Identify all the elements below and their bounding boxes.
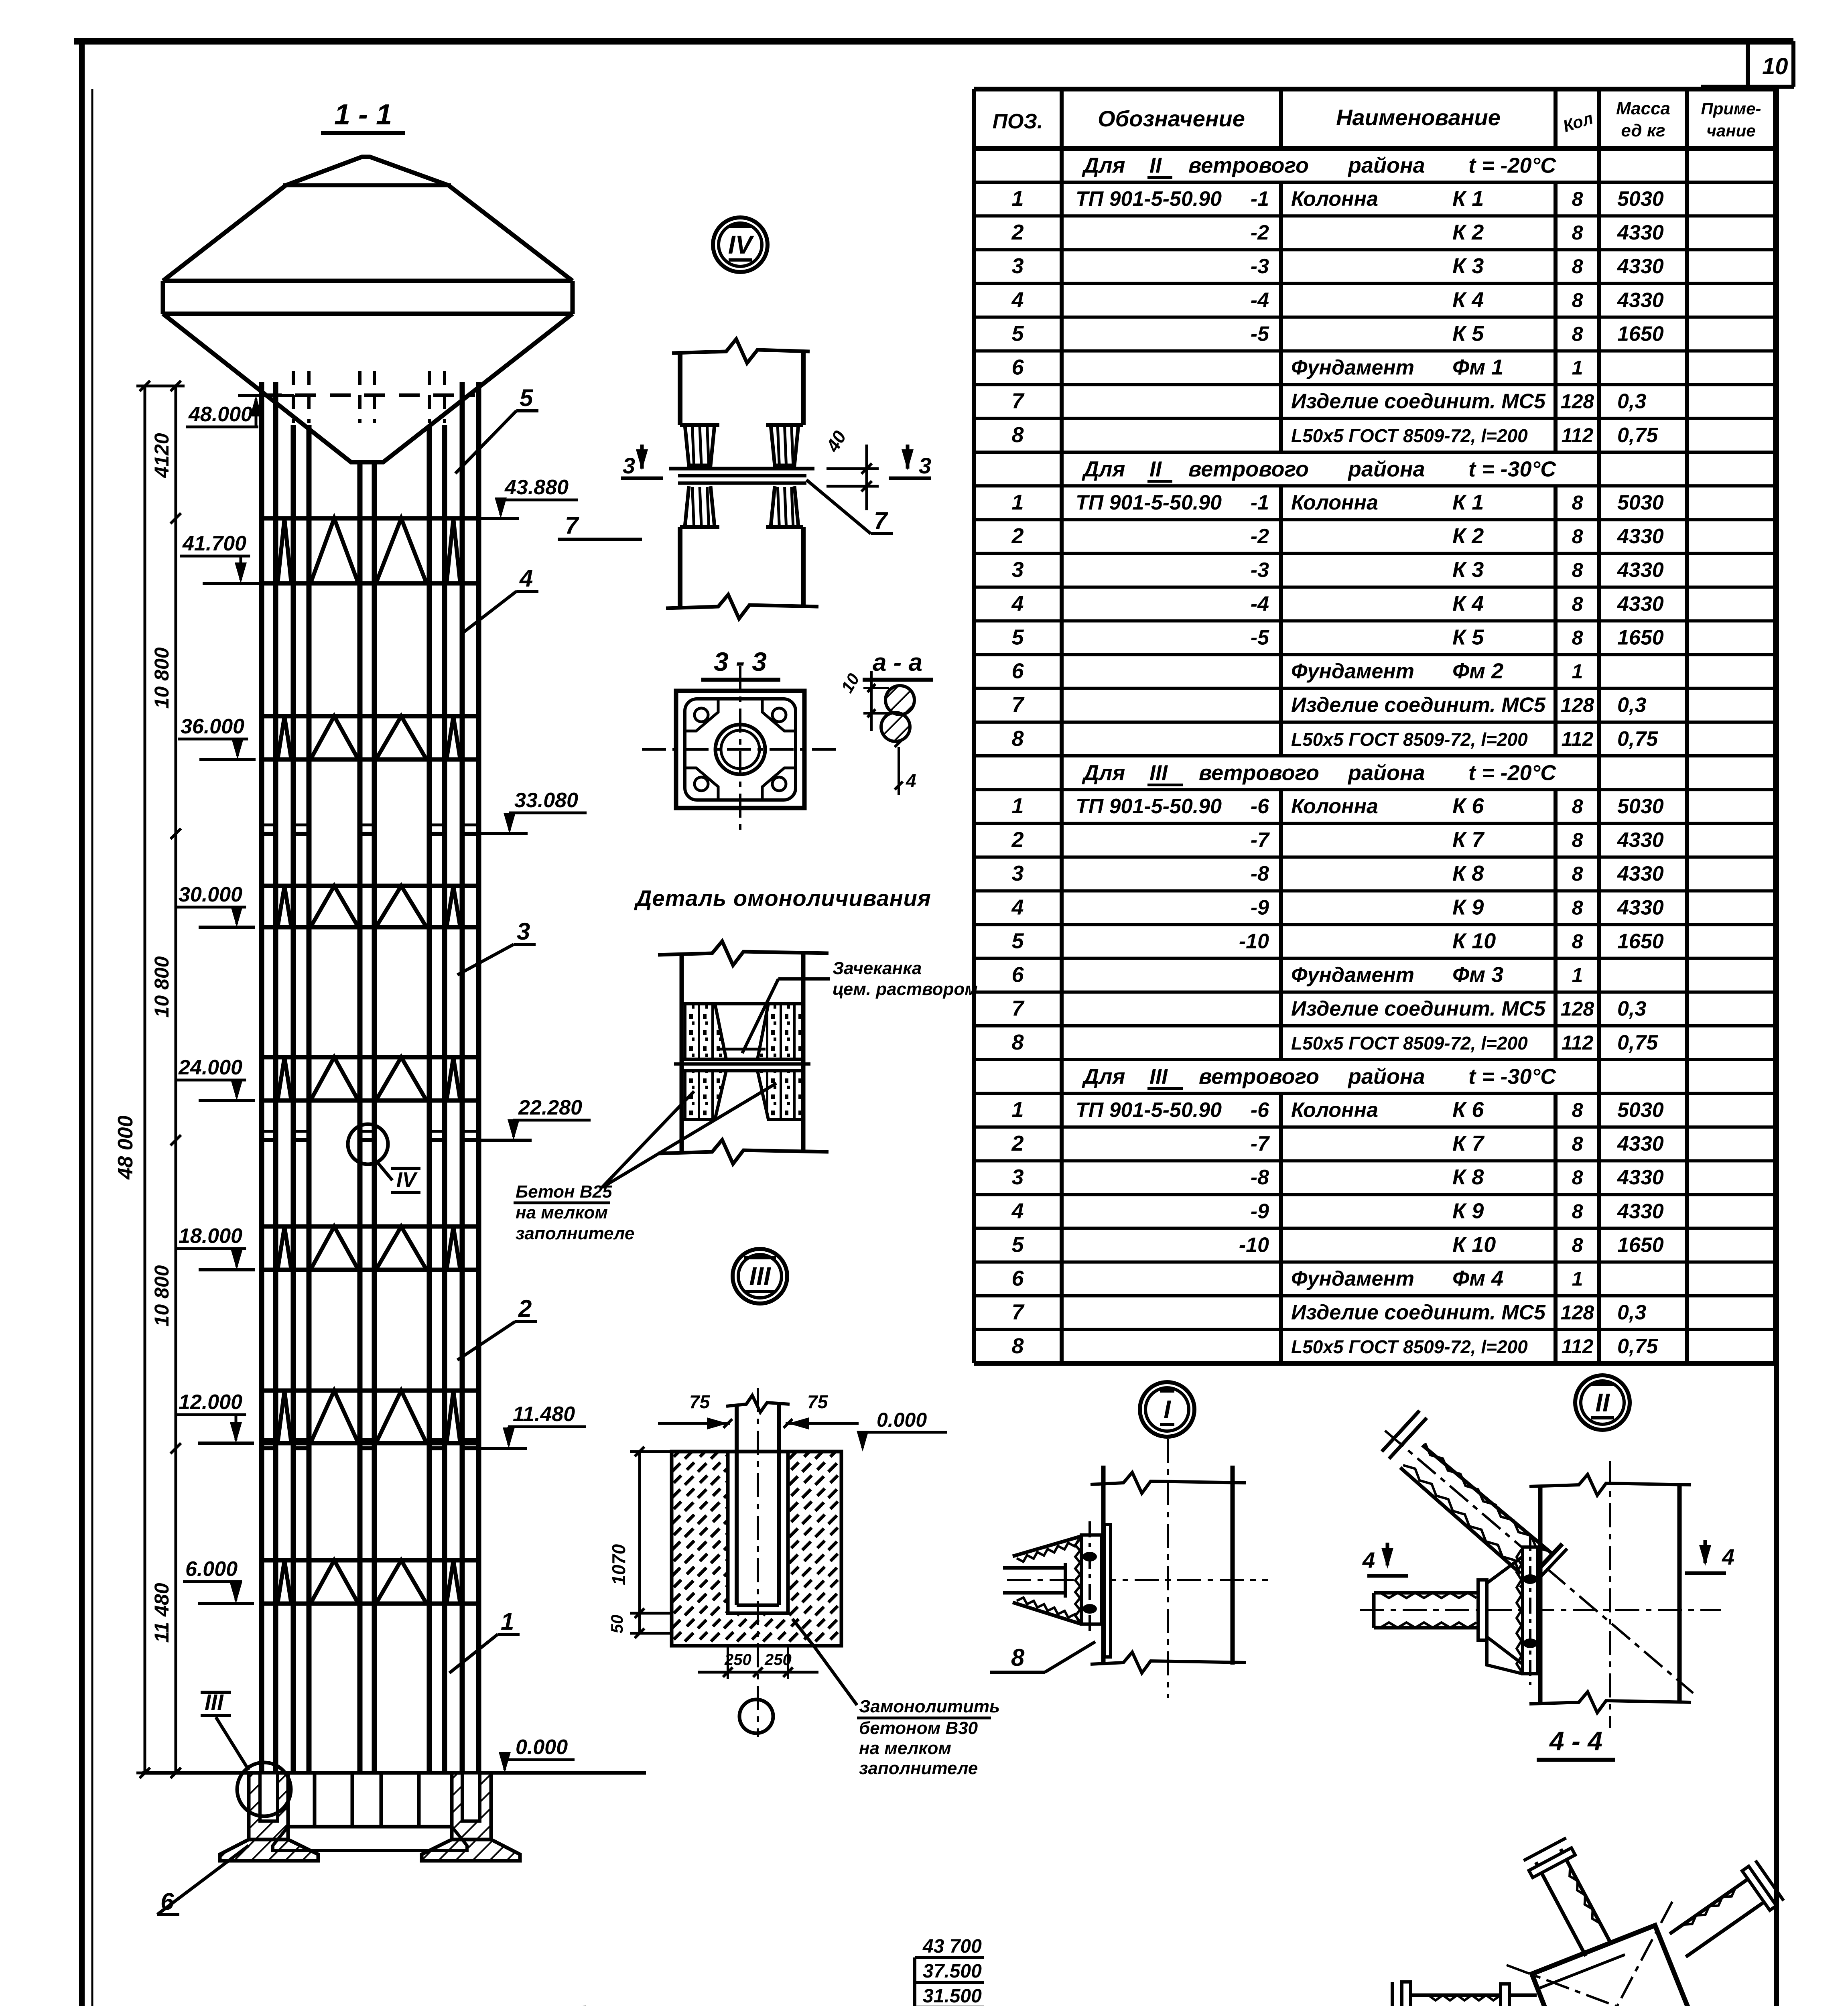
svg-text:11.480: 11.480 (513, 1403, 575, 1426)
svg-text:ветрового: ветрового (1188, 457, 1309, 481)
svg-text:К 5: К 5 (1452, 625, 1484, 649)
table section header III -20 (1082, 761, 1556, 785)
table row 7 Изделие соединит. МС5 (1011, 997, 1646, 1021)
svg-text:112: 112 (1562, 1335, 1594, 1358)
table row 4 К 4 (1011, 591, 1663, 615)
svg-text:8: 8 (1011, 1644, 1025, 1671)
svg-text:8: 8 (1011, 727, 1024, 751)
svg-text:1650: 1650 (1617, 930, 1664, 953)
svg-text:-8: -8 (1251, 1166, 1269, 1189)
svg-text:8: 8 (1572, 1166, 1583, 1189)
table row 3 К 8 (1011, 1165, 1663, 1189)
svg-text:ветрового: ветрового (1199, 1065, 1319, 1089)
table row 3 К 3 (1011, 558, 1663, 582)
foundation pit / slab (273, 1773, 467, 1850)
svg-text:7: 7 (874, 507, 888, 534)
detail IV column splice drawing (621, 339, 931, 619)
elevation mark 33.080 (471, 789, 587, 834)
svg-text:6: 6 (1011, 1267, 1024, 1291)
svg-text:-9: -9 (1251, 896, 1269, 919)
svg-text:-6: -6 (1251, 795, 1269, 818)
svg-text:К 9: К 9 (1452, 895, 1484, 919)
svg-text:0.000: 0.000 (516, 1736, 568, 1759)
table section header II -30 (1082, 457, 1556, 481)
svg-text:5030: 5030 (1617, 1098, 1664, 1122)
svg-text:К 6: К 6 (1452, 794, 1484, 818)
parts table grid (974, 89, 1775, 1363)
table row 1 К 1 (1011, 490, 1663, 514)
svg-text:района: района (1347, 1065, 1425, 1089)
svg-text:4330: 4330 (1617, 288, 1664, 312)
section 4-4 drawing (column with three beams, rotated view) (1392, 1838, 1783, 2006)
table row 5 К 5 (1011, 625, 1663, 649)
svg-text:8: 8 (1572, 1099, 1583, 1121)
elevation mark 0.000 (467, 1736, 575, 1773)
svg-text:К 4: К 4 (1452, 288, 1484, 312)
svg-text:1: 1 (1011, 794, 1024, 818)
svg-text:Для: Для (1082, 1065, 1125, 1089)
svg-text:8: 8 (1572, 863, 1583, 885)
svg-text:-8: -8 (1251, 862, 1269, 885)
svg-text:7: 7 (1011, 1300, 1025, 1324)
svg-text:1070: 1070 (608, 1544, 629, 1585)
svg-text:-2: -2 (1251, 221, 1269, 244)
table row 5 К 10 (1011, 929, 1663, 953)
svg-text:Колонна: Колонна (1291, 187, 1378, 211)
section label 3-3 (701, 647, 780, 680)
svg-text:К 3: К 3 (1452, 558, 1484, 582)
svg-text:t = -30°C: t = -30°C (1468, 457, 1556, 481)
svg-text:3: 3 (623, 453, 635, 478)
svg-text:-1: -1 (1251, 187, 1269, 211)
svg-text:0,75: 0,75 (1617, 1031, 1658, 1054)
detail II drawing (beam+brace to column joint) (1360, 1411, 1734, 1728)
svg-text:-4: -4 (1251, 592, 1269, 615)
svg-text:6: 6 (1011, 963, 1024, 987)
svg-text:4: 4 (1722, 1544, 1734, 1569)
svg-text:8: 8 (1011, 423, 1024, 447)
svg-text:IV: IV (396, 1168, 418, 1192)
svg-text:района: района (1347, 154, 1425, 178)
tower columns (shaft) (262, 382, 479, 1773)
svg-text:1650: 1650 (1617, 322, 1664, 345)
svg-text:на мелком: на мелком (859, 1738, 951, 1758)
svg-text:-7: -7 (1251, 828, 1270, 852)
svg-text:ПОЗ.: ПОЗ. (993, 110, 1043, 133)
table row 8 L50х5 ГОСТ 8509-72, l=200 (1011, 423, 1658, 447)
detail I circle label (1140, 1382, 1194, 1437)
svg-text:4330: 4330 (1617, 525, 1664, 548)
svg-text:4330: 4330 (1617, 558, 1664, 582)
section label 1-1 (321, 99, 405, 133)
svg-text:III: III (1149, 761, 1168, 785)
svg-text:К 3: К 3 (1452, 254, 1484, 278)
svg-text:8: 8 (1011, 1030, 1024, 1054)
svg-text:10 800: 10 800 (150, 956, 173, 1017)
svg-text:1650: 1650 (1617, 1233, 1664, 1257)
svg-text:8: 8 (1011, 1334, 1024, 1358)
callout 6 (foundation) (157, 1846, 249, 1915)
svg-text:43 700: 43 700 (922, 1936, 982, 1957)
svg-text:а - а: а - а (873, 649, 922, 676)
elevation mark 18.000 (176, 1224, 255, 1270)
svg-text:1: 1 (1572, 357, 1583, 379)
svg-text:8: 8 (1572, 559, 1583, 581)
svg-text:250: 250 (764, 1651, 792, 1669)
svg-text:ветрового: ветрового (1199, 761, 1319, 785)
column splice joints (260, 825, 480, 1448)
svg-text:0,75: 0,75 (1617, 727, 1658, 751)
svg-text:-5: -5 (1251, 322, 1269, 345)
svg-text:1: 1 (1572, 964, 1583, 987)
table header (993, 99, 1761, 140)
svg-text:4330: 4330 (1617, 1132, 1664, 1155)
svg-text:Масса: Масса (1616, 99, 1670, 118)
svg-text:0,3: 0,3 (1617, 390, 1646, 413)
svg-text:43.880: 43.880 (504, 476, 569, 499)
svg-text:на мелком: на мелком (516, 1203, 608, 1222)
svg-text:К 7: К 7 (1452, 1131, 1485, 1155)
svg-text:8: 8 (1572, 626, 1583, 649)
svg-text:7: 7 (1011, 389, 1025, 413)
section label a-a (863, 649, 933, 680)
svg-text:8: 8 (1572, 795, 1583, 818)
svg-text:7: 7 (1011, 997, 1025, 1021)
svg-text:112: 112 (1562, 728, 1594, 750)
table row 1 К 6 (1011, 794, 1663, 818)
table section header II -20 (1082, 154, 1556, 178)
svg-text:8: 8 (1572, 525, 1583, 548)
node IV mark on tower column (348, 1124, 420, 1192)
svg-text:3: 3 (1011, 558, 1024, 582)
callout 4 (461, 565, 538, 634)
svg-text:цем. раствором: цем. раствором (833, 979, 978, 999)
svg-text:2: 2 (1011, 524, 1024, 548)
svg-text:Для: Для (1082, 154, 1125, 178)
svg-text:4330: 4330 (1617, 1166, 1664, 1189)
svg-text:К 10: К 10 (1452, 929, 1496, 953)
svg-text:Колонна: Колонна (1291, 1098, 1378, 1122)
table row 4 К 9 (1011, 895, 1663, 919)
svg-text:ТП 901-5-50.90: ТП 901-5-50.90 (1076, 795, 1222, 818)
svg-text:4330: 4330 (1617, 1200, 1664, 1223)
svg-text:II: II (1149, 154, 1162, 178)
svg-text:заполнителе: заполнителе (516, 1224, 634, 1243)
svg-text:L50х5 ГОСТ 8509-72, l=200: L50х5 ГОСТ 8509-72, l=200 (1291, 1336, 1528, 1357)
svg-text:4120: 4120 (150, 433, 173, 478)
svg-text:К 6: К 6 (1452, 1098, 1484, 1122)
svg-text:Колонна: Колонна (1291, 795, 1378, 818)
table row 7 Изделие соединит. МС5 (1011, 389, 1646, 413)
svg-text:3: 3 (919, 453, 931, 478)
svg-text:Схема расположения элементов: Схема расположения элементов башни (154, 2002, 651, 2006)
svg-text:8: 8 (1572, 188, 1583, 210)
elevation mark 41.700 (180, 532, 259, 583)
table row 2 К 7 (1011, 828, 1663, 852)
table row 6 Фм 1 (1011, 355, 1583, 380)
label beton B25 (514, 1083, 776, 1243)
svg-text:8: 8 (1572, 593, 1583, 615)
bracing panels (262, 518, 479, 583)
sheet top border (74, 38, 1793, 45)
svg-text:К 1: К 1 (1452, 490, 1484, 514)
svg-text:L50х5 ГОСТ 8509-72, l=200: L50х5 ГОСТ 8509-72, l=200 (1291, 1033, 1528, 1054)
svg-text:10 800: 10 800 (150, 647, 173, 709)
svg-text:11 480: 11 480 (150, 1583, 173, 1643)
table row 7 Изделие соединит. МС5 (1011, 693, 1646, 717)
dim 1500 and elevation list 2-2 (822, 1936, 984, 2006)
svg-text:Фундамент: Фундамент (1291, 1267, 1414, 1291)
svg-text:ТП 901-5-50.90: ТП 901-5-50.90 (1076, 187, 1222, 211)
svg-text:4: 4 (1011, 895, 1024, 919)
water tank (163, 157, 573, 462)
svg-text:4330: 4330 (1617, 828, 1664, 852)
svg-text:Фм 2: Фм 2 (1452, 659, 1503, 683)
svg-text:8: 8 (1572, 323, 1583, 345)
callout 7 right (806, 480, 893, 534)
svg-text:128: 128 (1561, 390, 1594, 413)
callout 5 (column element) (455, 384, 538, 473)
svg-text:4: 4 (1011, 1199, 1024, 1223)
svg-text:250: 250 (724, 1651, 751, 1669)
svg-text:5: 5 (520, 384, 534, 411)
svg-text:48.000: 48.000 (188, 403, 252, 426)
table row 2 К 2 (1011, 524, 1663, 548)
svg-text:8: 8 (1572, 829, 1583, 851)
svg-text:чание: чание (1706, 121, 1755, 140)
elevation mark 22.280 (475, 1096, 591, 1140)
elevation mark 6.000 (183, 1557, 254, 1604)
svg-text:4330: 4330 (1617, 221, 1664, 244)
callout 1 (449, 1608, 520, 1673)
svg-text:4330: 4330 (1617, 255, 1664, 278)
svg-text:33.080: 33.080 (514, 789, 578, 812)
svg-text:41.700: 41.700 (182, 532, 246, 555)
svg-text:1: 1 (1011, 1098, 1024, 1122)
detail I drawing (beam to column joint) (1003, 1439, 1268, 1698)
svg-text:К 8: К 8 (1452, 861, 1484, 885)
svg-text:8: 8 (1572, 1133, 1583, 1155)
svg-text:2: 2 (1011, 828, 1024, 852)
detail IV circle label (713, 217, 768, 272)
svg-text:района: района (1347, 761, 1425, 785)
table row 1 К 6 (1011, 1098, 1663, 1122)
svg-text:L50х5 ГОСТ 8509-72, l=200: L50х5 ГОСТ 8509-72, l=200 (1291, 425, 1528, 446)
svg-text:Бетон В25: Бетон В25 (516, 1182, 612, 1202)
svg-text:района: района (1347, 457, 1425, 481)
svg-text:0,75: 0,75 (1617, 424, 1658, 447)
svg-text:4 - 4: 4 - 4 (1549, 1726, 1602, 1756)
svg-text:0,3: 0,3 (1617, 694, 1646, 717)
svg-text:8: 8 (1572, 930, 1583, 952)
sheet left border (79, 41, 85, 2006)
svg-text:5030: 5030 (1617, 187, 1664, 211)
svg-text:-3: -3 (1251, 255, 1269, 278)
svg-text:II: II (1595, 1388, 1610, 1417)
elevation mark 30.000 (176, 883, 255, 927)
svg-text:50: 50 (607, 1615, 626, 1634)
svg-text:-3: -3 (1251, 558, 1269, 582)
table row 3 К 3 (1011, 254, 1663, 278)
table row 8 L50х5 ГОСТ 8509-72, l=200 (1011, 1030, 1658, 1054)
svg-text:Замонолитить: Замонолитить (859, 1697, 1000, 1716)
svg-text:-2: -2 (1251, 525, 1269, 548)
svg-text:8: 8 (1572, 896, 1583, 919)
svg-text:10 800: 10 800 (150, 1265, 173, 1326)
svg-text:8: 8 (1572, 491, 1583, 514)
svg-text:4: 4 (1362, 1547, 1375, 1573)
page number box (1746, 41, 1750, 87)
table row 2 К 7 (1011, 1131, 1663, 1155)
svg-text:-10: -10 (1239, 1233, 1269, 1257)
svg-text:Фм 1: Фм 1 (1452, 355, 1503, 380)
svg-text:8: 8 (1572, 255, 1583, 278)
svg-text:1650: 1650 (1617, 626, 1664, 649)
svg-text:Для: Для (1082, 761, 1125, 785)
foundation pedestal right (422, 1773, 520, 1861)
svg-text:Изделие соединит. МС5: Изделие соединит. МС5 (1291, 694, 1546, 717)
elevation mark 36.000 (178, 715, 256, 759)
svg-text:22.280: 22.280 (518, 1096, 582, 1119)
svg-text:24.000: 24.000 (178, 1056, 242, 1079)
svg-text:4: 4 (1011, 288, 1024, 312)
callout 8 (990, 1642, 1095, 1672)
svg-text:бетоном В30: бетоном В30 (859, 1718, 978, 1738)
svg-text:Обозначение: Обозначение (1098, 106, 1245, 131)
svg-text:К 4: К 4 (1452, 591, 1484, 615)
callout 2 (457, 1295, 537, 1360)
svg-text:t = -20°C: t = -20°C (1468, 761, 1556, 785)
svg-text:112: 112 (1562, 1031, 1594, 1054)
svg-text:3: 3 (1011, 861, 1024, 885)
svg-text:0.000: 0.000 (877, 1409, 927, 1431)
svg-text:75: 75 (807, 1391, 829, 1412)
svg-text:-4: -4 (1251, 288, 1269, 312)
svg-text:10: 10 (1762, 53, 1788, 79)
svg-text:1: 1 (1572, 660, 1583, 683)
table row 5 К 5 (1011, 321, 1663, 345)
table row 6 Фм 4 (1011, 1267, 1583, 1291)
svg-text:112: 112 (1562, 424, 1594, 447)
svg-text:II: II (1149, 457, 1162, 481)
svg-text:-1: -1 (1251, 491, 1269, 514)
svg-text:1: 1 (1011, 187, 1024, 211)
ground line 0.000 (142, 1771, 646, 1775)
svg-text:Фм 4: Фм 4 (1452, 1267, 1503, 1291)
svg-text:К 8: К 8 (1452, 1165, 1484, 1189)
svg-text:5: 5 (1011, 625, 1024, 649)
svg-text:Изделие соединит. МС5: Изделие соединит. МС5 (1291, 997, 1546, 1021)
svg-text:6: 6 (1011, 355, 1024, 380)
svg-text:4: 4 (519, 565, 533, 592)
table row 2 К 2 (1011, 220, 1663, 244)
section 3-3 drawing (column cross-section) (642, 666, 839, 832)
table row 5 К 10 (1011, 1232, 1663, 1257)
svg-text:L50х5 ГОСТ 8509-72, l=200: L50х5 ГОСТ 8509-72, l=200 (1291, 729, 1528, 750)
svg-text:IV: IV (728, 230, 755, 259)
svg-text:ветрового: ветрового (1188, 154, 1309, 178)
svg-text:31.500: 31.500 (923, 1986, 982, 2006)
table row 3 К 8 (1011, 861, 1663, 885)
svg-text:III: III (1149, 1065, 1168, 1089)
svg-text:-10: -10 (1239, 930, 1269, 953)
svg-text:75: 75 (689, 1391, 711, 1412)
svg-text:8: 8 (1572, 289, 1583, 311)
table row 6 Фм 2 (1011, 659, 1583, 683)
svg-text:-6: -6 (1251, 1098, 1269, 1122)
svg-text:37.500: 37.500 (923, 1961, 982, 1982)
svg-text:3: 3 (1011, 254, 1024, 278)
monolithic joint detail drawing (658, 941, 829, 1164)
svg-text:4: 4 (1011, 591, 1024, 615)
table row 4 К 9 (1011, 1199, 1663, 1223)
callout 3 (457, 918, 536, 975)
svg-text:-5: -5 (1251, 626, 1269, 649)
svg-text:5030: 5030 (1617, 795, 1664, 818)
svg-text:t = -20°C: t = -20°C (1468, 154, 1556, 178)
svg-text:Зачеканка: Зачеканка (833, 958, 922, 978)
svg-text:4330: 4330 (1617, 862, 1664, 885)
svg-text:3: 3 (1011, 1165, 1024, 1189)
svg-text:6.000: 6.000 (185, 1557, 238, 1581)
svg-text:4330: 4330 (1617, 896, 1664, 919)
table row 8 L50х5 ГОСТ 8509-72, l=200 (1011, 1334, 1658, 1358)
svg-text:1: 1 (1572, 1268, 1583, 1290)
svg-text:К 7: К 7 (1452, 828, 1485, 852)
svg-text:2: 2 (518, 1295, 532, 1322)
svg-text:-9: -9 (1251, 1200, 1269, 1223)
sheet right border (1774, 87, 1779, 2006)
table row 7 Изделие соединит. МС5 (1011, 1300, 1646, 1324)
svg-text:К 1: К 1 (1452, 187, 1484, 211)
svg-text:К 9: К 9 (1452, 1199, 1484, 1223)
svg-text:-7: -7 (1251, 1132, 1270, 1155)
svg-text:Для: Для (1082, 457, 1125, 481)
svg-text:Фундамент: Фундамент (1291, 356, 1414, 380)
svg-text:2: 2 (1011, 220, 1024, 244)
svg-text:Фундамент: Фундамент (1291, 964, 1414, 987)
svg-text:ТП 901-5-50.90: ТП 901-5-50.90 (1076, 1098, 1222, 1122)
svg-text:Наименование: Наименование (1336, 105, 1501, 130)
svg-text:7: 7 (565, 512, 579, 539)
svg-text:Фм 3: Фм 3 (1452, 963, 1503, 987)
svg-text:128: 128 (1561, 1301, 1594, 1324)
svg-text:3: 3 (517, 918, 530, 945)
callout 7 at top bracing (558, 512, 642, 539)
section label 4-4 (1537, 1726, 1615, 1760)
svg-text:1: 1 (1011, 490, 1024, 514)
table row 8 L50х5 ГОСТ 8509-72, l=200 (1011, 727, 1658, 751)
svg-text:8: 8 (1572, 1234, 1583, 1256)
svg-text:К 5: К 5 (1452, 321, 1484, 345)
detail II circle label (1575, 1375, 1630, 1430)
svg-text:t = -30°C: t = -30°C (1468, 1065, 1556, 1089)
svg-text:ед кг: ед кг (1621, 121, 1665, 140)
svg-text:48 000: 48 000 (114, 1115, 137, 1180)
label zachekanka (742, 958, 978, 1053)
elevation mark 48.000 (186, 396, 294, 427)
foundation socket detail (607, 1388, 947, 1737)
elevation mark 12.000 (176, 1391, 254, 1443)
svg-text:30.000: 30.000 (179, 883, 242, 906)
table row 1 К 1 (1011, 187, 1663, 211)
svg-text:Изделие соединит. МС5: Изделие соединит. МС5 (1291, 1301, 1546, 1324)
svg-text:Колонна: Колонна (1291, 491, 1378, 514)
table section header III -30 (1082, 1065, 1556, 1089)
dimension line 48000 overall (114, 381, 185, 1778)
svg-text:2: 2 (1011, 1131, 1024, 1155)
elevation mark 43.880 (463, 476, 578, 518)
